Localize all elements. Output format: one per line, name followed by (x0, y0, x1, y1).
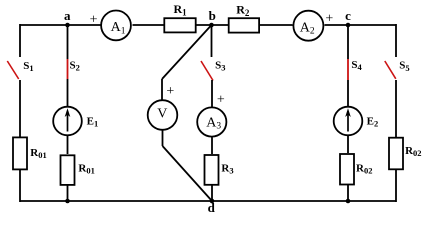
switch S4 (closed, red segment) (347, 59, 349, 80)
polarity + of A1 (90, 13, 98, 28)
wire c down to S4 (347, 25, 349, 59)
svg-text:S3: S3 (215, 59, 225, 72)
svg-text:+: + (166, 84, 174, 99)
label R01 (left branch) (30, 147, 46, 160)
label R02 (right branch) (405, 145, 421, 158)
ammeter A3 (197, 107, 226, 136)
node a (65, 23, 70, 28)
svg-text:+: + (90, 13, 98, 28)
label S2 (70, 59, 80, 72)
svg-text:R01: R01 (30, 147, 46, 160)
wire left column above S1 (19, 24, 21, 57)
label d (208, 200, 216, 215)
polarity + of V (166, 84, 174, 99)
wire E2 to R02 (347, 136, 349, 153)
wire V diagonal to node d (163, 146, 213, 201)
svg-text:R02: R02 (405, 145, 421, 158)
label E2 (367, 115, 379, 128)
svg-text:+: + (217, 93, 225, 108)
svg-text:R01: R01 (78, 162, 94, 175)
label a (64, 8, 71, 23)
wire R02 to bottom rail right (395, 170, 397, 202)
voltmeter V (148, 100, 178, 130)
svg-text:c: c (345, 8, 351, 23)
wire S2 to E1 (67, 79, 69, 106)
svg-text:S5: S5 (399, 60, 409, 73)
source E2 (334, 107, 363, 136)
label S3 (215, 59, 225, 72)
label S1 (23, 60, 33, 73)
wire top rail left: a to A1 (20, 24, 101, 26)
svg-text:R1: R1 (174, 2, 188, 17)
label R1 (174, 2, 188, 17)
wire bottom rail (20, 200, 396, 202)
resistor R01 (left branch) (13, 137, 27, 169)
label b (209, 8, 216, 23)
wire A3 to R3 (211, 137, 213, 154)
label E1 (87, 115, 99, 128)
resistor R01 (E1 branch) (61, 155, 75, 185)
ammeter A2 (293, 11, 323, 41)
label R02 (E2 branch) (356, 162, 372, 175)
wire R2 to A2 (260, 24, 293, 26)
resistor R3 (205, 155, 219, 185)
switch S2 (closed, red segment) (67, 59, 69, 79)
wire left column R01 to bottom rail (19, 170, 21, 202)
polarity + of A2 (325, 12, 333, 27)
ammeter A1 (101, 11, 131, 41)
wire b diagonal to voltmeter branch (162, 25, 212, 79)
wire right column above S5 (395, 24, 397, 57)
wire vertical into V (161, 79, 163, 100)
wire left column S1 to R01 (19, 80, 21, 137)
svg-text:+: + (325, 12, 333, 27)
switch S3 (201, 61, 213, 81)
switch S1 (7, 61, 18, 79)
wire A2 to top-right corner through node c (325, 24, 397, 26)
wire E1 to R01 (67, 136, 69, 154)
junction dot E1 branch at bottom rail (65, 199, 70, 204)
resistor R2 (229, 18, 259, 32)
svg-text:E2: E2 (367, 115, 379, 128)
wire V down (162, 130, 164, 146)
svg-text:S1: S1 (23, 60, 33, 73)
wire R01 to bottom rail (67, 186, 69, 202)
label S5 (399, 60, 409, 73)
label R3 (221, 162, 233, 175)
svg-text:b: b (209, 8, 216, 23)
label c (345, 8, 351, 23)
wire R3 to node d (211, 186, 213, 202)
resistor R02 (E2 branch) (340, 154, 354, 185)
svg-text:E1: E1 (87, 115, 99, 128)
wire A1 to R1 (133, 24, 164, 26)
svg-text:R02: R02 (356, 162, 372, 175)
wire S3 to A3 (211, 80, 213, 107)
wire b down to S3 (211, 25, 213, 57)
node d (210, 199, 215, 204)
node b (209, 23, 214, 28)
polarity + of A3 (217, 93, 225, 108)
wire S4 to E2 (347, 80, 349, 106)
svg-text:S2: S2 (70, 59, 80, 72)
svg-text:R2: R2 (236, 3, 250, 18)
junction dot E2 branch at bottom rail (346, 199, 351, 204)
svg-text:d: d (208, 200, 216, 215)
switch S5 (385, 61, 396, 79)
resistor R02 (right branch) (389, 138, 403, 170)
wire a down to S2 (67, 25, 69, 59)
resistor R1 (164, 18, 195, 32)
node c (346, 23, 351, 28)
label R2 (236, 3, 250, 18)
svg-text:V: V (157, 107, 167, 122)
svg-text:a: a (64, 8, 71, 23)
wire R1 to R2 through node b (197, 24, 229, 26)
svg-text:S4: S4 (351, 59, 362, 72)
label R01 (E1 branch) (78, 162, 94, 175)
label S4 (351, 59, 362, 72)
wire S5 to R02 (395, 80, 397, 137)
source E1 (53, 107, 82, 136)
wire R02 to bottom rail (347, 185, 349, 201)
svg-text:R3: R3 (221, 162, 233, 175)
